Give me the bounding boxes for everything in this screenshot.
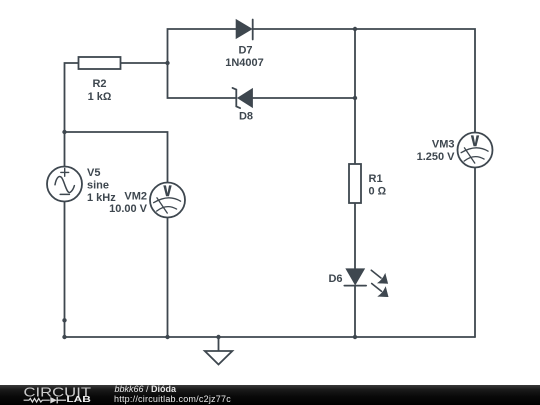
- label D7: [225, 45, 264, 70]
- wire D7 cathode to middle column: [253, 28, 355, 30]
- wire vertical junction column to D8 row: [168, 63, 237, 98]
- wire V5 top to R2 left corner: [65, 63, 79, 167]
- wire D6 to bottom row: [354, 286, 356, 338]
- svg-text:R1: R1: [369, 173, 383, 185]
- node junction bottom left: [62, 335, 66, 339]
- node junction R2 right: [165, 61, 169, 65]
- svg-text:1.250 V: 1.250 V: [417, 151, 456, 163]
- voltmeter VM2: [150, 183, 185, 218]
- label R1: [369, 173, 387, 198]
- svg-text:D7: D7: [238, 45, 252, 57]
- node junction D8 row middle: [353, 96, 357, 100]
- CircuitLab logo: [0, 385, 110, 405]
- wire V5 bottom to bottom row: [64, 202, 66, 338]
- svg-text:sine: sine: [87, 180, 109, 192]
- wire vertical junction column to top row: [168, 29, 237, 63]
- node junction bottom middle: [353, 335, 357, 339]
- wire middle column top to R1: [354, 29, 356, 164]
- diode D7: [236, 20, 253, 40]
- label VM2: [109, 191, 148, 216]
- svg-text:10.00 V: 10.00 V: [109, 203, 148, 215]
- wire bottom row: [65, 336, 476, 338]
- resistor R1: [349, 164, 361, 203]
- voltmeter VM3: [458, 133, 493, 168]
- resistor R2: [79, 57, 121, 69]
- svg-text:1N4007: 1N4007: [225, 57, 264, 69]
- wire VM3 bottom to bottom row: [474, 167, 476, 337]
- voltage source V5: [47, 167, 82, 202]
- footer title text: [115, 385, 177, 394]
- label V5: [87, 167, 116, 204]
- wire VM2 bottom to bottom row: [167, 218, 169, 338]
- node junction bottom ground: [216, 335, 220, 339]
- svg-text:V5: V5: [87, 167, 100, 179]
- svg-text:VM3: VM3: [432, 139, 455, 151]
- svg-text:1 kΩ: 1 kΩ: [88, 91, 112, 103]
- wire R2 right to junction: [121, 62, 168, 64]
- wire VM2 branch row: [65, 132, 168, 183]
- label D6: [328, 273, 342, 285]
- footer bar: [0, 385, 540, 405]
- LED D6: [344, 269, 388, 297]
- ground: [205, 337, 233, 365]
- wire top row middle to right column: [355, 29, 475, 133]
- svg-text:VM2: VM2: [124, 191, 147, 203]
- node junction bottom VM2: [165, 335, 169, 339]
- wire D8 anode to middle column: [252, 97, 355, 99]
- svg-text:LAB: LAB: [66, 395, 91, 404]
- footer url text: [114, 395, 231, 404]
- svg-text:D6: D6: [328, 273, 342, 285]
- node junction left column lower: [62, 318, 66, 322]
- label R2: [88, 78, 112, 103]
- node junction VM2 branch: [62, 130, 66, 134]
- zener diode D8: [233, 88, 253, 108]
- svg-text:R2: R2: [92, 78, 106, 90]
- label D8: [239, 111, 253, 123]
- node junction top row middle: [353, 27, 357, 31]
- wire R1 to D6: [354, 203, 356, 269]
- svg-text:D8: D8: [239, 111, 253, 123]
- label VM3: [417, 139, 456, 164]
- svg-text:0 Ω: 0 Ω: [369, 186, 387, 198]
